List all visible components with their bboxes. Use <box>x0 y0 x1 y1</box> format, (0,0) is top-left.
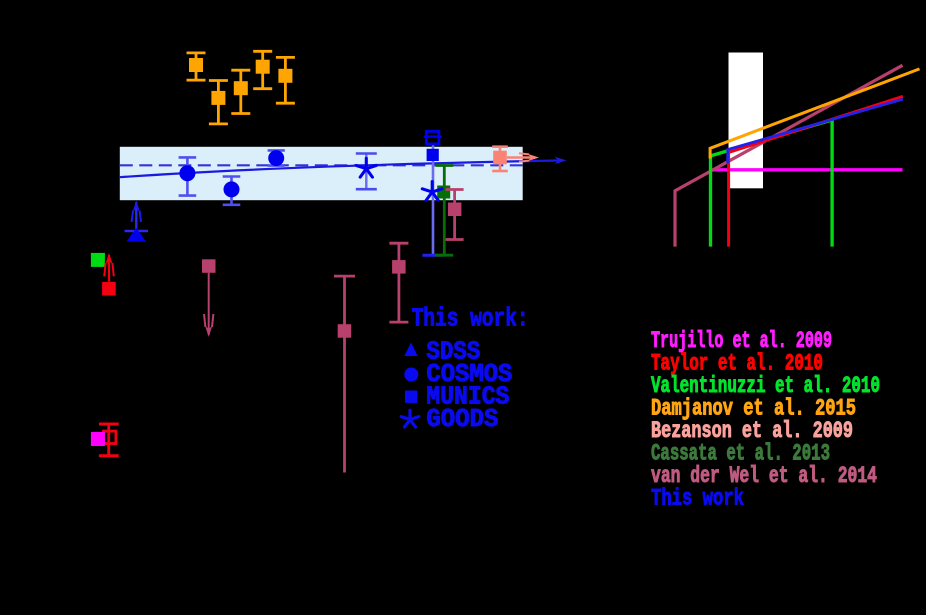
svg-text:This work: This work <box>651 485 744 511</box>
svg-text:GOODS: GOODS <box>426 404 498 434</box>
svg-text:This work:: This work: <box>412 304 529 334</box>
